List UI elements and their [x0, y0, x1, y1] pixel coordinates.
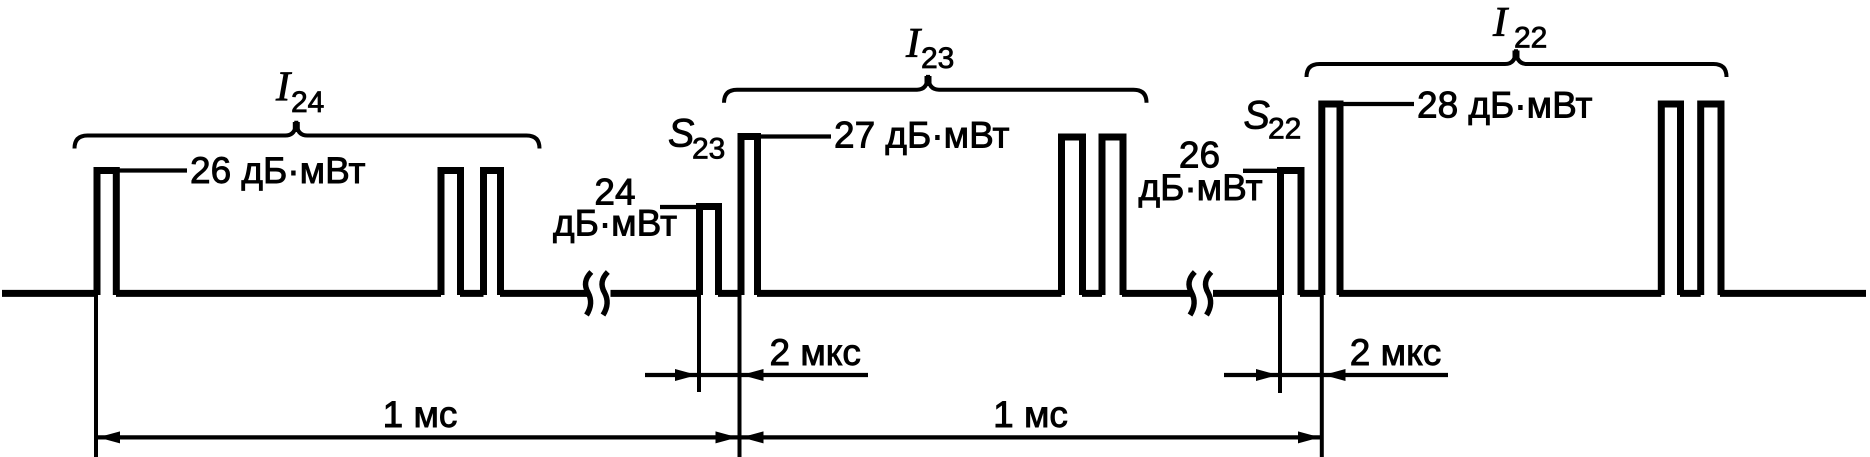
svg-text:23: 23 — [921, 42, 954, 75]
dimension line 1ms right — [742, 435, 1321, 439]
extension line E4 — [1278, 295, 1282, 393]
svg-text:дБ·мВт: дБ·мВт — [553, 203, 677, 244]
arrowhead 1ms right — [1298, 431, 1320, 443]
svg-text:S: S — [1244, 93, 1270, 137]
leader line 26dBmW right — [1243, 169, 1282, 173]
arrowhead 2us-2 right — [1324, 369, 1346, 381]
pulse P1 26dBmW — [97, 171, 116, 296]
dimension line 1ms left — [98, 435, 738, 439]
svg-text:1 мс: 1 мс — [383, 394, 458, 435]
svg-text:23: 23 — [692, 133, 725, 166]
wire baseline A4 — [500, 290, 588, 297]
extension line E5 — [1320, 295, 1324, 457]
svg-text:26 дБ·мВт: 26 дБ·мВт — [190, 150, 366, 191]
leader line 27dBmW — [757, 134, 831, 138]
wire baseline B4 — [1082, 290, 1102, 297]
break symbol 2 left curve — [1189, 272, 1195, 315]
svg-text:I: I — [275, 64, 292, 111]
wire baseline C1 — [1213, 290, 1281, 297]
arrowhead 1ms mid-left — [716, 431, 738, 443]
arrowhead 1ms left — [98, 431, 120, 443]
break symbol 2 right curve — [1205, 272, 1211, 315]
arrowhead 2us-2 left — [1256, 369, 1278, 381]
svg-text:27 дБ·мВт: 27 дБ·мВт — [834, 115, 1010, 156]
pulse P8 26dBmW — [1281, 171, 1302, 296]
brace I22 cusp fill — [1513, 51, 1520, 61]
svg-text:дБ·мВт: дБ·мВт — [1138, 167, 1262, 208]
leader line 26dBmW — [115, 168, 187, 172]
leader line 28dBmW — [1339, 102, 1414, 106]
pulse P6 — [1062, 137, 1083, 295]
svg-text:22: 22 — [1514, 22, 1547, 55]
svg-text:28 дБ·мВт: 28 дБ·мВт — [1417, 85, 1593, 126]
wire baseline C2 — [1300, 290, 1322, 297]
arrowhead 2us-1 right — [742, 369, 764, 381]
pulse P7 — [1102, 137, 1123, 295]
dimension line 2us right — [1224, 373, 1278, 377]
pulse P5 S23 27dBmW — [741, 137, 758, 296]
wire baseline B2 — [718, 290, 741, 297]
brace I23 cusp fill — [925, 76, 932, 86]
svg-text:1 мс: 1 мс — [993, 394, 1068, 435]
wire baseline C4 — [1680, 290, 1701, 297]
wire baseline B5 — [1122, 290, 1191, 297]
wire baseline C3 — [1339, 290, 1661, 297]
brace I23 — [724, 75, 1147, 103]
dimension line 2us right tail — [1324, 373, 1449, 377]
dimension line 2us left — [645, 373, 697, 377]
pulse P10 — [1661, 104, 1680, 295]
wire baseline A1 — [2, 290, 97, 297]
svg-text:24: 24 — [291, 86, 324, 119]
brace I24 — [75, 121, 540, 149]
svg-text:S: S — [668, 112, 694, 156]
pulse P9 S22 28dBmW — [1322, 104, 1340, 295]
svg-text:22: 22 — [1268, 113, 1301, 146]
arrowhead 1ms mid-right — [742, 431, 764, 443]
pulse P4 24dBmW — [700, 207, 719, 296]
wire baseline C5 — [1720, 290, 1866, 297]
break symbol 1 left curve — [585, 272, 591, 315]
extension line E3 — [738, 295, 742, 457]
svg-text:I: I — [905, 20, 922, 67]
leader line 24dBmW — [660, 205, 701, 209]
pulse P2 — [441, 171, 461, 296]
extension line E1 — [94, 295, 98, 457]
dimension line 2us left connector — [697, 373, 742, 377]
brace I22 — [1307, 49, 1727, 77]
wire baseline A2 — [116, 290, 441, 297]
pulse P3 — [484, 171, 501, 296]
break symbol 1 right curve — [602, 272, 608, 315]
wire baseline B3 — [757, 290, 1062, 297]
svg-text:2 мкс: 2 мкс — [1350, 332, 1441, 373]
arrowhead 2us-1 left — [675, 369, 697, 381]
wire baseline A3 — [460, 290, 484, 297]
extension line E2 — [697, 295, 701, 392]
dimension line 2us left tail — [742, 373, 869, 377]
svg-text:I: I — [1492, 0, 1509, 46]
brace I24 cusp fill — [293, 122, 300, 132]
wire baseline B1 — [611, 290, 700, 297]
dimension line 2us right connector — [1278, 373, 1324, 377]
svg-text:2 мкс: 2 мкс — [769, 332, 860, 373]
pulse P11 — [1701, 104, 1721, 295]
